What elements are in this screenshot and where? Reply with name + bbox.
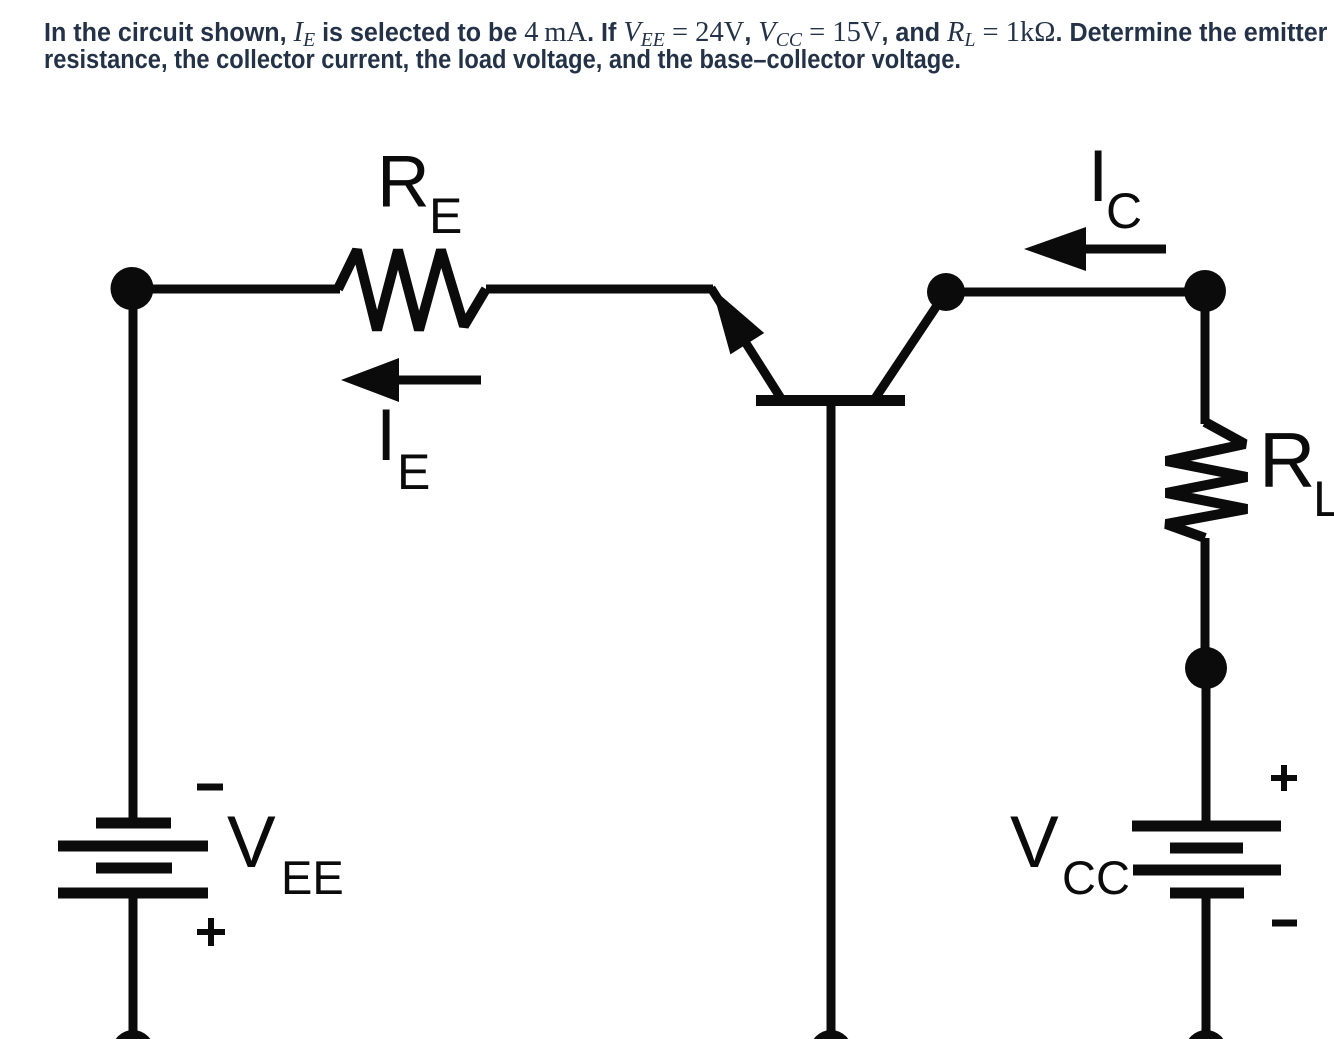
- battery VEE plate 4 long: [58, 888, 208, 899]
- wire battery VCC to bottom: [1202, 893, 1211, 1034]
- minus sign VCC: [1272, 920, 1297, 927]
- svg-text:E: E: [429, 188, 462, 244]
- wire node A to resistor RE: [132, 285, 340, 294]
- svg-text:L: L: [1313, 471, 1334, 527]
- resistor RL: [1166, 422, 1247, 538]
- current arrow IE shaft: [396, 376, 481, 385]
- current arrow IC head: [1024, 227, 1086, 271]
- resistor RE: [338, 250, 486, 330]
- wire node D to battery VCC: [1202, 668, 1211, 826]
- battery VCC plate 3 long: [1133, 865, 1281, 876]
- svg-text:EE: EE: [281, 851, 344, 904]
- node C top-right junction: [1184, 270, 1226, 312]
- transistor Q1 base bar: [756, 395, 905, 406]
- node F bottom left: [112, 1030, 154, 1039]
- transistor Q1 emitter lead: [711, 288, 782, 400]
- svg-text:E: E: [397, 444, 430, 500]
- battery VCC plate 4 short: [1170, 888, 1244, 899]
- wire resistor RL to node D: [1201, 538, 1210, 650]
- plus sign VCC: [1271, 775, 1297, 781]
- battery VEE plate 2 long: [58, 841, 208, 852]
- transistor Q1 base lead wire: [827, 401, 836, 1034]
- problem statement text line 2: [44, 46, 961, 74]
- problem statement text line 1: [44, 18, 1327, 47]
- node A top-left junction: [111, 267, 154, 310]
- svg-text:V: V: [1010, 802, 1059, 883]
- battery VCC plate 2 short: [1170, 843, 1243, 854]
- minus sign VEE: [197, 784, 223, 791]
- node B collector junction: [927, 273, 965, 311]
- transistor Q1 emitter arrowhead: [712, 288, 764, 354]
- transistor Q1 collector lead: [874, 292, 946, 400]
- current arrow IE head: [341, 358, 399, 402]
- svg-text:R: R: [1259, 416, 1315, 504]
- svg-text:V: V: [227, 802, 276, 883]
- plus sign VEE: [197, 929, 225, 935]
- wire node B to node C: [946, 288, 1205, 297]
- current arrow IC shaft: [1084, 245, 1166, 254]
- svg-text:R: R: [377, 142, 430, 223]
- node D junction RL-VCC: [1185, 647, 1227, 689]
- wire battery VEE to bottom: [129, 893, 138, 1034]
- wire node C down to resistor RL: [1201, 291, 1210, 424]
- svg-text:C: C: [1106, 183, 1142, 239]
- wire left vertical node A to battery VEE: [129, 289, 138, 823]
- node base bottom: [810, 1030, 852, 1039]
- wire resistor RE to emitter bend: [486, 285, 713, 294]
- svg-text:CC: CC: [1062, 851, 1130, 904]
- node E bottom right: [1185, 1030, 1227, 1039]
- battery VCC plate 1 long: [1132, 821, 1281, 832]
- battery VEE plate 3 short: [96, 863, 172, 874]
- battery VEE plate 1 short: [96, 818, 171, 829]
- svg-text:I: I: [376, 395, 396, 476]
